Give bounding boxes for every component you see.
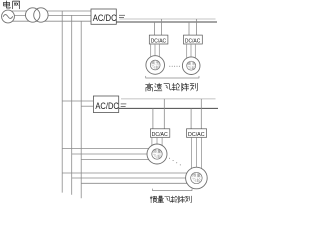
svg-text:DC/AC: DC/AC [185, 38, 200, 44]
svg-text:DC/AC: DC/AC [152, 132, 168, 138]
svg-text:AC/DC: AC/DC [93, 13, 117, 24]
svg-text:DC/AC: DC/AC [151, 38, 166, 44]
svg-text:DC/AC: DC/AC [188, 132, 205, 138]
svg-text:AC/DC: AC/DC [95, 101, 119, 112]
